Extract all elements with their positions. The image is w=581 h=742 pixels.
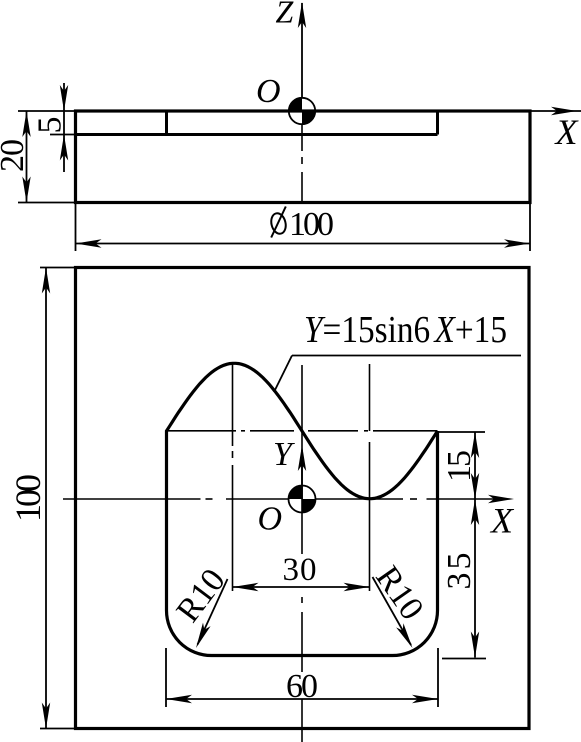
dim 100 top extension (40, 267, 76, 269)
formula leader diagonal (274, 356, 292, 393)
X axis centerline (plan view) (63, 498, 201, 500)
R10 right leader (373, 577, 412, 645)
dim 20 line (26, 111, 28, 203)
svg-text:100: 100 (8, 474, 48, 522)
arrow dim100 bottom (42, 703, 50, 729)
dim 30 line (233, 586, 370, 588)
Z axis line (301, 3, 303, 98)
pocket right wall (section) (436, 111, 439, 135)
peak centerline x=232.5 (232, 362, 234, 446)
svg-text:X: X (489, 501, 515, 541)
dim 100 bottom extension (40, 728, 76, 730)
dim 60 left extension (165, 648, 167, 707)
svg-text:O: O (256, 73, 281, 110)
X axis line (front view) (530, 110, 581, 112)
Y axis line (301, 450, 303, 499)
arrow dim20 top (22, 111, 30, 137)
arrow X axis front (551, 107, 577, 115)
pocket outline with sine top (167, 363, 438, 655)
dim 20/5 top extension line (18, 110, 76, 112)
arrow dim100 top (42, 268, 50, 294)
arrow dim15 top (471, 432, 479, 458)
arrow phi100 left (76, 239, 102, 247)
arrow dim35 top (471, 499, 479, 525)
svg-text:20: 20 (0, 139, 31, 172)
arrow dim15 bottom (471, 473, 479, 499)
arrow X axis plan (488, 495, 514, 503)
dim 5 extension line (50, 134, 76, 136)
arrow dim5 lower (60, 135, 68, 161)
front-view plate outline (76, 111, 531, 203)
vertical centerline (plan view) (301, 365, 303, 554)
arrow R10 left (196, 623, 211, 648)
dim 5 line (63, 83, 65, 172)
svg-text:O: O (258, 501, 283, 538)
Z axis centerline below origin (301, 124, 303, 151)
label phi100 (269, 206, 334, 243)
dim 100 line (45, 268, 47, 729)
wave baseline centerline y=431 (167, 430, 237, 432)
trough extension line x=369.5 (369, 364, 371, 431)
R10 left leader (198, 579, 228, 645)
svg-text:100: 100 (289, 206, 334, 243)
arrow dim30 left (233, 583, 259, 591)
dim 20 bottom extension line (18, 202, 76, 204)
arrow dim20 bottom (22, 177, 30, 203)
phi100 right extension line (529, 203, 531, 252)
dim 15/35 line (474, 432, 476, 658)
dim 15 extension line (438, 431, 486, 433)
svg-text:Y=15sin6X+15: Y=15sin6X+15 (304, 309, 507, 351)
dim 60 right extension (437, 648, 439, 707)
dim 35 bottom extension line (442, 658, 486, 660)
arrow R10 right (396, 623, 412, 648)
origin symbol front view (289, 98, 315, 124)
arrow dim60 right (412, 695, 438, 703)
formula leader underline (292, 355, 521, 357)
svg-text:Z: Z (276, 0, 295, 30)
arrow dim35 bottom (471, 632, 479, 658)
arrow phi100 right (504, 239, 530, 247)
phi100 left extension line (75, 203, 77, 252)
phi100 dimension line (76, 243, 531, 245)
svg-text:15: 15 (441, 450, 478, 482)
dim 60 line (166, 698, 438, 700)
svg-text:Y: Y (273, 436, 295, 473)
origin symbol plan view (289, 486, 316, 513)
arrow Y axis (298, 445, 306, 471)
svg-text:X: X (554, 112, 580, 152)
arrow dim60 left (166, 695, 192, 703)
svg-text:30: 30 (283, 552, 317, 588)
pocket left wall (section) (165, 111, 168, 135)
arrow Z axis (298, 2, 306, 28)
svg-text:5: 5 (32, 117, 69, 134)
square-view outline (76, 268, 530, 729)
svg-text:60: 60 (286, 668, 318, 705)
arrow dim30 right (344, 583, 370, 591)
pocket floor line (depth 5) (76, 133, 438, 136)
arrow dim5 upper (60, 85, 68, 111)
